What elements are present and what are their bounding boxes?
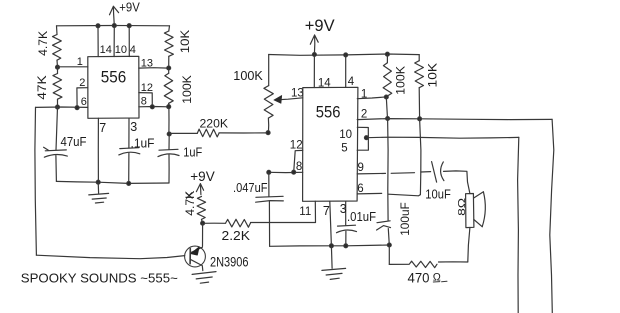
svg-text:.1uF: .1uF [131,137,155,151]
node junction rail2-R6 [385,52,389,56]
node junction rail-pin7-ground [96,180,100,184]
svg-text:+9V: +9V [190,169,214,184]
wire R4 bottom to 220K node [168,107,170,134]
svg-text:4.7K: 4.7K [36,30,50,56]
svg-text:556: 556 [101,67,127,86]
svg-text:+9V: +9V [305,17,335,35]
wire pin 6 net horizontal [36,106,88,108]
resistor R1 4.7K [56,26,59,35]
wire C7 to R9 [388,245,390,264]
wire pin 14 (U1) to rail [97,26,99,57]
svg-text:2.2K: 2.2K [222,229,251,243]
capacitor C4 .047uF [268,172,270,196]
capacitor C5 .01uF [338,224,356,227]
wire +9V rail (middle section) [269,54,420,55]
wire pin 10-5 long to right [366,137,518,138]
wire R10 to pin 11 [251,222,316,224]
wire V388 pin1 to pin2 [386,97,387,119]
svg-text:1: 1 [361,89,367,101]
node junction R11-R10-Q1 [201,221,205,225]
capacitor C2 .1uF [120,147,139,150]
svg-text:13: 13 [291,87,304,99]
wire pin 11 (U2) [314,201,316,222]
wire pin 4 (U1) to rail [128,26,130,57]
resistor R9 470 ohm [389,263,408,265]
node junction R4-pin8 [167,105,171,109]
svg-text:47uF: 47uF [61,135,87,149]
ground symbol (transistor) [192,272,216,275]
svg-text:9: 9 [358,162,364,174]
svg-text:100K: 100K [394,65,408,95]
capacitor C1 47uF [56,107,58,150]
wire V420 pin2 to pin6 [420,119,421,195]
ground symbol (left section) [97,182,99,193]
potentiometer R7 100K (pitch control) [268,55,270,86]
node junction R3-R4-pin13 [167,66,171,70]
wire pin 6 (U2) [357,193,420,195]
capacitor C3 1uF [168,134,170,150]
svg-text:+9V: +9V [119,0,140,14]
wire pin 3 (U2) down [345,201,347,225]
svg-text:4: 4 [130,44,136,56]
power +9V supply arrow (middle) [310,35,318,54]
svg-text:8Ω: 8Ω [457,197,468,216]
node junction 220K-1uF [167,132,171,136]
svg-text:5: 5 [341,143,347,155]
wire pin 9 (U2) [357,173,414,174]
node junction R1-R2-pin1 [55,65,59,69]
node junction rail-C2 [127,181,131,185]
svg-text:8: 8 [296,161,302,173]
wire bottom rail (left section) [56,181,169,183]
wire speaker bottom to R9 [468,228,470,262]
resistor R8 10K [418,55,420,61]
svg-text:3: 3 [340,202,347,216]
svg-text:2: 2 [361,109,367,121]
svg-text:.01uF: .01uF [347,210,376,224]
wire pin 1 (U2) [357,97,386,99]
wire pin 13 (U1) [139,67,169,69]
wire right edge vertical (pin2 net) [550,119,554,313]
node junction rail2-pin4 [344,53,348,57]
wire pin 1 (U1) [58,66,88,68]
power +9V supply arrow (transistor) [196,184,203,195]
wire pin 14 (U2) to rail [313,55,315,88]
svg-text:10K: 10K [426,62,440,87]
node junction pin12-pin8 [292,170,296,174]
wire 2.2K net horizontal [203,222,226,224]
IC U1 556 dual timer box [88,56,139,118]
node junction rail-pin14 [96,24,100,28]
wire pin 4 (U2) to rail [345,55,347,88]
svg-text:1uF: 1uF [183,145,202,159]
svg-text:4: 4 [348,76,355,88]
node junction pin8-C4 [267,170,271,174]
node junction R6-pin1 [384,95,388,99]
svg-text:12: 12 [290,140,303,152]
wire pin 12 (U2) jog [294,150,303,172]
wire pin 2 (U1) jog [77,88,88,108]
svg-text:220K: 220K [200,119,229,131]
resistor R10 2.2K [226,219,251,227]
svg-text:4.7K: 4.7K [183,190,197,216]
svg-text:556: 556 [316,103,341,122]
node junction rail-pin10 [112,24,116,28]
svg-text:10: 10 [339,129,352,141]
svg-text:100uF: 100uF [398,202,412,236]
svg-text:13: 13 [141,57,153,69]
resistor R5 220K [169,132,197,134]
svg-text:2N3906: 2N3906 [210,255,249,270]
transistor Q1 2N3906 [185,246,206,267]
wire pin 13 (U2) wiper arrow [276,98,303,100]
wire pin9 node to C6 [421,171,431,173]
speaker SP1 [466,194,474,228]
pin 10-5 bracket (U2) [357,127,368,150]
svg-text:10uF: 10uF [425,187,451,201]
svg-text:2: 2 [79,77,85,89]
svg-text:470: 470 [408,270,430,286]
wire +9V rail (left section) [57,25,170,27]
node junction rail3-pin3 [344,244,348,248]
wire pin 7 (U2) down [330,201,332,246]
wire pin 12 (U1) jog [139,93,153,107]
svg-text:100K: 100K [233,69,263,83]
svg-text:3: 3 [130,120,137,134]
node junction V388-pin2 [386,116,390,120]
svg-text:100K: 100K [180,74,194,103]
svg-text:7: 7 [99,121,106,135]
svg-text:47K: 47K [35,75,49,100]
svg-text:10K: 10K [178,29,192,53]
wire bottom rail (middle section) [270,245,390,246]
node junction pin2-pin6 [75,106,79,110]
svg-text:11: 11 [299,206,311,218]
wire feedback to Q1 base [36,255,184,259]
svg-text:10: 10 [115,44,127,56]
wire feedback left vertical [35,107,37,255]
svg-text:12: 12 [141,82,153,94]
resistor R3 10K [168,26,171,31]
svg-text:7: 7 [323,204,330,218]
wire pin 7 (U1) down [97,118,99,182]
node junction rail-pin4 [127,24,131,28]
svg-text:6: 6 [357,183,363,195]
wire pin 10 (U1) to rail [113,26,115,57]
wire pin 8 (U1) [139,106,169,108]
resistor R11 4.7K (transistor bias) [197,196,206,219]
resistor R2 47K [57,67,59,73]
wire C6 to speaker [444,171,470,194]
wire pin 8 (U2) [269,171,303,173]
capacitor C6 10uF [432,162,437,183]
capacitor C7 100uF [377,221,390,223]
ground symbol (middle section) [330,246,333,268]
node junction R5-R7 [266,131,270,135]
wire V388 pin2 down to 100uF [387,119,390,221]
IC U2 556 dual timer box [303,87,358,201]
svg-text:8: 8 [141,96,147,108]
node junction pin2-R8 [418,117,422,121]
node junction rail3-pin7 [329,244,333,248]
svg-text:14: 14 [100,44,112,56]
wire pin 3 (U1) down [128,118,130,148]
node junction pin12-pin8 [150,105,154,109]
svg-text:6: 6 [81,96,87,108]
node junction rail2-pin14 [312,52,316,56]
wire right vertical (pin10-5 net) [518,137,519,313]
node junction pin10-5 [364,136,368,140]
resistor R4 100K [168,68,170,73]
wire Q1 emitter up [202,223,204,246]
node junction R2 bottom [55,105,59,109]
svg-text:1: 1 [77,56,83,68]
svg-text:SPOOKY SOUNDS ~555~: SPOOKY SOUNDS ~555~ [21,270,178,285]
svg-text:.047uF: .047uF [233,181,268,195]
svg-text:14: 14 [318,78,331,90]
wire pin 2 (U2) long to right edge [357,119,552,120]
power +9V supply arrow (left) [110,6,119,25]
node junction rail3-C7 [387,243,391,247]
resistor R6 100K [386,54,388,63]
